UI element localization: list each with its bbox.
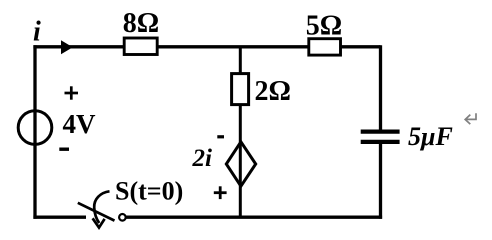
svg-text:2Ω: 2Ω [255,76,291,107]
switch S blade [78,203,115,221]
voltage source V1 circle [18,111,52,145]
minus sign of dependent source [217,135,224,138]
svg-text:i: i [33,17,41,48]
current arrow on top wire [61,40,73,54]
svg-text:5μF: 5μF [408,122,453,151]
paragraph return mark (gray) [465,113,476,124]
wire: left vertical branch [33,45,36,219]
wire: bottom right segment [126,216,382,219]
minus sign of source [59,147,69,150]
wire: top horizontal (node top) [33,45,380,48]
resistor R2 5ohm box [309,39,341,55]
svg-text:5Ω: 5Ω [306,11,342,42]
capacitor C1 plates [361,130,400,134]
plus sign of source [65,86,79,99]
wire: bottom left segment [33,216,86,219]
switch arrow head [93,218,105,227]
wire: middle vertical branch [239,47,242,217]
switch pivot contact circle [119,214,126,221]
svg-text:2i: 2i [192,145,213,172]
svg-text:4V: 4V [63,109,97,139]
resistor R3 2ohm box (vertical) [232,74,249,105]
plus sign of dependent source [214,186,227,199]
resistor R1 8ohm box [124,38,157,55]
switch motion curved arrow [94,191,109,223]
wire: right vertical lower segment [379,144,382,219]
svg-text:S(t=0): S(t=0) [115,177,183,206]
dependent source diamond [226,142,255,186]
wire: right vertical upper segment [379,45,382,130]
svg-text:8Ω: 8Ω [123,8,159,39]
